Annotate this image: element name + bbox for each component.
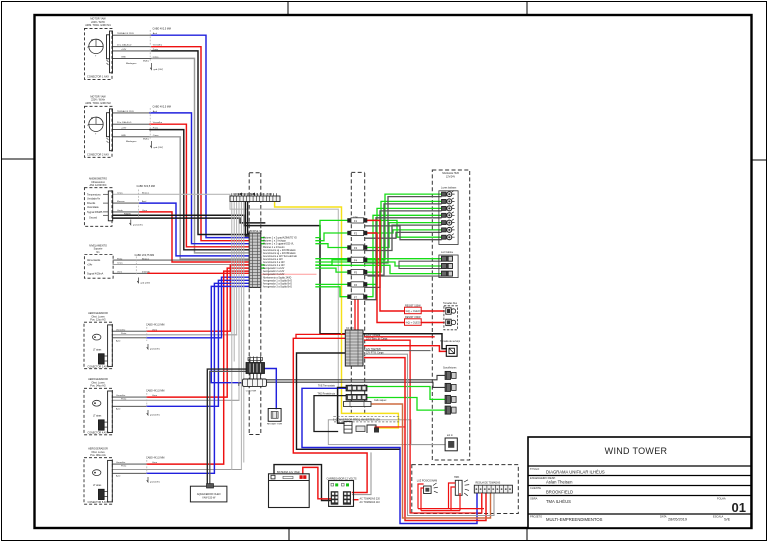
svg-text:Azul: Azul (153, 110, 158, 113)
svg-text:CABO 2X0,75 MM: CABO 2X0,75 MM (135, 254, 155, 257)
panel boundary gray box around converter (328, 420, 411, 445)
cable marker M1 (149, 30, 151, 62)
svg-text:M: M (91, 117, 93, 120)
svg-text:gnd (24V): gnd (24V) (141, 282, 151, 284)
charger output stub (red) (354, 499, 358, 501)
svg-text:CONECTOR 1 AXX: CONECTOR 1 AXX (87, 76, 109, 79)
wire M1 L1 (blue) (113, 34, 153, 36)
fuse F4 (347, 258, 351, 262)
svg-text:Anemómetro 2 a 12V: Anemómetro 2 a 12V (263, 264, 285, 267)
svg-text:Temperatura: Temperatura (87, 193, 101, 196)
svg-text:20 a 10A+B+D: 20 a 10A+B+D (117, 44, 132, 47)
oil heater junction box (190, 484, 227, 502)
svg-text:LUZ POSICIONAM: LUZ POSICIONAM (417, 479, 437, 482)
strobe lamp HRK (454, 476, 469, 496)
svg-text:Verm: Verm (117, 271, 122, 274)
svg-text:Preto: Preto (153, 48, 159, 51)
svg-text:RS485: RS485 (124, 213, 131, 215)
svg-text:Sonofletores: Sonofletores (443, 367, 457, 370)
shield drain G3 (147, 477, 148, 482)
slipring SR1 on left duct (246, 357, 265, 380)
wire AN1 shield (grey, to yellow duct run) (113, 194, 339, 419)
svg-text:AQUECEDOR OLEO: AQUECEDOR OLEO (197, 493, 221, 496)
svg-text:Verm: Verm (152, 328, 157, 331)
svg-text:Motores 1 e 2 ygpantrl/220 VL: Motores 1 e 2 ygpantrl/220 VL (263, 243, 294, 246)
blue feed TKE row2 stub (314, 396, 346, 432)
svg-text:Sygnal 4/20mA: Sygnal 4/20mA (87, 272, 104, 275)
svg-text:CABO 6X0,5 MM: CABO 6X0,5 MM (137, 185, 155, 188)
svg-text:Cinza: Cinza (117, 263, 123, 265)
svg-text:OBRA: OBRA (530, 497, 538, 501)
svg-text:220V Tomada: 220V Tomada (366, 335, 381, 337)
motor block M1 (yaw motor) (85, 18, 113, 80)
turbine block G2 (aerogenerator) (84, 378, 112, 435)
battery negative lead (black) (274, 465, 331, 501)
wire G2 L (red) (112, 396, 147, 398)
svg-text:Verm: Verm (142, 209, 147, 212)
wire N1 supply (dark) (113, 259, 249, 261)
turbine block G3 (aerogenerator) (84, 448, 112, 505)
grey charger feed (353, 453, 372, 495)
svg-text:ant m: ant m (447, 434, 453, 437)
svg-text:CONECTOR 5 AXX: CONECTOR 5 AXX (88, 501, 109, 504)
cable duct left (tower column) (249, 173, 261, 435)
fuse F1 (347, 218, 351, 222)
socket strip (regua de tomadas) (474, 482, 512, 493)
svg-text:TMA ILHÉUS: TMA ILHÉUS (546, 499, 571, 504)
svg-text:REGUA DE TOMADAS: REGUA DE TOMADAS (476, 482, 501, 485)
title block (528, 437, 751, 528)
svg-text:FOLHA: FOLHA (717, 497, 726, 501)
terminal block X2 in left duct (249, 230, 263, 287)
svg-text:+24V: +24V (121, 128, 127, 130)
svg-text:Verm: Verm (152, 394, 157, 397)
cable marker M2 (149, 108, 151, 140)
wire M1 PE (black) (113, 50, 153, 52)
svg-text:GND: GND (121, 135, 126, 137)
turbine block G1 (aerogenerator) (84, 312, 112, 369)
svg-text:Motores 1 e 2 fechpgs: Motores 1 e 2 fechpgs (263, 240, 287, 243)
svg-text:Luzes balizam: Luzes balizam (441, 187, 456, 190)
beacon lamps L1-L7 (442, 191, 455, 240)
fuse F6 (347, 282, 351, 286)
green feeds to mid devices (316, 258, 441, 260)
heater strip (orange component) (344, 400, 388, 407)
svg-text:LT atras: LT atras (93, 349, 102, 352)
svg-text:GND: GND (121, 56, 126, 58)
black ring main (terminal - base) (297, 353, 400, 449)
wire N1 return (grey) (113, 264, 249, 266)
shield drain N1 (137, 278, 138, 283)
grey returns from mid devices (399, 261, 441, 268)
battery positive lead (red) (303, 467, 331, 498)
blue slipring to junction box (265, 369, 277, 409)
svg-text:CABO 4X2,5 MM: CABO 4X2,5 MM (153, 105, 171, 108)
svg-text:Cinza: Cinza (117, 192, 123, 194)
grey tail to tower base device (411, 444, 445, 446)
svg-text:gnd (24V): gnd (24V) (154, 69, 164, 71)
svg-text:YAW 150 W: YAW 150 W (202, 497, 216, 500)
cable marker G3 (146, 460, 148, 474)
svg-text:TKE Termostato: TKE Termostato (318, 385, 336, 388)
margin tick bottom x289 (288, 528, 290, 540)
svg-text:Azul: Azul (153, 32, 158, 35)
svg-text:DATA: DATA (660, 515, 667, 519)
svg-text:Sygnal RS485: Sygnal RS485 (87, 211, 103, 214)
wire M2 PE (black) (113, 129, 151, 131)
svg-text:Tomada de serviço: Tomada de serviço (440, 340, 461, 343)
wire G3 N (grey) (112, 469, 241, 471)
svg-text:Anemómetro sg + 24V Blindado: Anemómetro sg + 24V Blindado (263, 252, 296, 255)
svg-text:Azul: Azul (116, 474, 121, 477)
wire AN1 signal- (red) (113, 211, 140, 213)
svg-text:Direcão: Direcão (87, 202, 96, 205)
fuse F5 (347, 270, 351, 274)
svg-text:Nivelamento a Supão 24VD: Nivelamento a Supão 24VD (263, 276, 292, 279)
svg-text:Aslan Theisen: Aslan Theisen (546, 480, 573, 485)
svg-text:Ground: Ground (89, 217, 98, 220)
svg-text:TITULO: TITULO (530, 467, 539, 471)
svg-text:Azul: Azul (116, 339, 121, 342)
tower base lamps dashed enclosure (412, 465, 519, 514)
tower connector X3 below slipring (239, 379, 267, 392)
shield drain G2 (147, 410, 148, 415)
svg-text:20 a 10A+B+D: 20 a 10A+B+D (117, 121, 132, 124)
svg-text:Pos. 08oo AG: Pos. 08oo AG (90, 454, 105, 457)
svg-text:gnd (24V): gnd (24V) (150, 349, 160, 351)
long dark pair tower connector to horn speakers (266, 375, 445, 379)
svg-text:ESCALA: ESCALA (713, 515, 724, 519)
svg-text:Vermelho: Vermelho (153, 44, 163, 47)
svg-text:Pos. 12oo AG: Pos. 12oo AG (90, 319, 105, 322)
cable marker G1 (146, 327, 148, 341)
svg-text:Blindagem: Blindagem (126, 63, 137, 65)
svg-text:12V RT B. Carga: 12V RT B. Carga (366, 352, 384, 355)
fuse F2 (347, 231, 351, 235)
svg-text:M: M (91, 39, 93, 42)
shield drain M2 (150, 141, 151, 148)
svg-text:REG ANT TWR: REG ANT TWR (267, 423, 283, 426)
wire N1 signal (red) (113, 272, 148, 274)
svg-text:CABO 4X1,5 MM: CABO 4X1,5 MM (146, 390, 164, 393)
svg-text:Verm: Verm (152, 461, 157, 464)
svg-text:Motores 1 e 2 grau/AZIMUTE YD: Motores 1 e 2 grau/AZIMUTE YD (263, 237, 297, 240)
svg-text:LT atras: LT atras (93, 415, 102, 418)
red drop to base sockets (wrap under lamp box) (365, 358, 486, 521)
svg-text:TENSAO R 220V: TENSAO R 220V (117, 32, 134, 35)
svg-text:4/20mA: 4/20mA (142, 271, 150, 274)
svg-text:Branco: Branco (142, 191, 150, 194)
svg-text:DIAGRAMA UNIFILAR ILHÉUS: DIAGRAMA UNIFILAR ILHÉUS (546, 470, 605, 475)
wire M2 L1 (blue) (113, 112, 151, 114)
green branches fuse column to beacon lamps (367, 194, 441, 260)
fuse F7 (347, 295, 351, 299)
shield drain G1 (147, 344, 148, 349)
wire G1 N (grey, joins down-comer) (112, 334, 236, 336)
svg-text:CABO 4X1,5 MM: CABO 4X1,5 MM (146, 323, 164, 326)
wire G1 L (red, rises to terminal) (112, 330, 147, 332)
battery charger 12V (327, 477, 381, 506)
svg-text:AQ + OLEO: AQ + OLEO (406, 309, 420, 313)
svg-text:Aerogerador 2 a 12V: Aerogerador 2 a 12V (263, 270, 285, 273)
svg-text:+24v: +24v (87, 264, 93, 267)
cable marker AN1 (138, 190, 140, 219)
svg-text:Motores 1 e 2 Neutro: Motores 1 e 2 Neutro (263, 246, 285, 249)
svg-text:CONECTOR 4 AXX: CONECTOR 4 AXX (88, 431, 109, 434)
svg-text:CABO 4X1,5 MM: CABO 4X1,5 MM (146, 457, 164, 460)
svg-text:Anemómetro 2 a 12V: Anemómetro 2 a 12V (263, 261, 285, 264)
svg-text:Umidade/Ve: Umidade/Ve (87, 198, 101, 201)
svg-text:Aerogerador 3 a Supão B+D: Aerogerador 3 a Supão B+D (263, 285, 292, 288)
wire M2 L2 (red) (113, 123, 151, 125)
margin tick top x527 (526, 2, 528, 15)
svg-text:Luz Cabine: Luz Cabine (441, 251, 454, 254)
svg-text:Vermelho: Vermelho (116, 328, 126, 331)
svg-text:Cinza: Cinza (153, 135, 159, 137)
service socket (X symbol) (440, 340, 461, 356)
wire G1 E (blue, rises to terminal) (112, 337, 147, 339)
svg-text:Cinza: Cinza (153, 56, 159, 58)
svg-text:01: 01 (732, 500, 746, 515)
svg-text:PROJETO: PROJETO (530, 515, 542, 519)
svg-text:Vermelho: Vermelho (116, 461, 126, 464)
svg-text:AN1 12/24VDC: AN1 12/24VDC (89, 184, 106, 187)
fuse F3 (347, 245, 351, 249)
TKE connector row 2 (317, 392, 367, 400)
svg-text:Azul: Azul (116, 407, 121, 410)
obstruction lamp LP1 (417, 479, 438, 493)
junction box JB1 (267, 409, 283, 426)
svg-text:CARREGADOR 12 VOLTS: CARREGADOR 12 VOLTS (327, 477, 357, 480)
red feeder fuse F2 to heater resistor 2 (367, 233, 404, 323)
wire N1 signal pass-through (light red) (261, 273, 316, 275)
blue feed inverter to TKE row1 (302, 388, 477, 523)
svg-text:Preto: Preto (153, 127, 159, 130)
interface connector X1 (nacelle/tower) (230, 193, 280, 202)
svg-text:LT atras: LT atras (93, 484, 102, 487)
wire AN1 signal+ (blue) (113, 202, 140, 204)
svg-text:Vermelho: Vermelho (153, 121, 163, 124)
svg-text:Preto: Preto (121, 332, 127, 335)
grey pair right of tower terminal (365, 350, 430, 352)
svg-text:Aerogerador 1 a 12V: Aerogerador 1 a 12V (263, 267, 285, 270)
svg-text:Velocidade: Velocidade (87, 206, 99, 209)
svg-text:Anemómetro sg + 24V Blindado: Anemómetro sg + 24V Blindado (263, 249, 296, 252)
svg-text:gnd (24V): gnd (24V) (150, 482, 160, 484)
wire G2 N (grey) (112, 399, 239, 401)
svg-text:Preto: Preto (117, 257, 123, 260)
svg-text:Aerogerador 3 a 12V: Aerogerador 3 a 12V (263, 273, 285, 276)
green feeds TKE rows to horn speakers (367, 387, 445, 400)
frequency converter assembly (334, 416, 399, 433)
sensor block B3 (anemometer / wind vane) (84, 178, 112, 227)
margin tick bottom x527 (526, 528, 528, 540)
margin tick top x288 (287, 2, 289, 15)
svg-text:CONECTOR 2 AXX: CONECTOR 2 AXX (87, 153, 109, 156)
svg-text:Aerogerador 1 a Supão B+D: Aerogerador 1 a Supão B+D (263, 279, 292, 282)
svg-text:HRK: HRK (454, 476, 460, 479)
green jumpers terminal to fuses (261, 237, 264, 239)
heater resistor R1 (red box) (405, 304, 422, 313)
red tails heater resistors to sockets (421, 310, 444, 312)
svg-text:MULTI-EMPREENDIMENTOS: MULTI-EMPREENDIMENTOS (546, 517, 603, 522)
svg-text:Verde: Verde (117, 209, 123, 212)
shield drain M1 (150, 63, 151, 70)
svg-text:Aerogerador 2 a Supão B+D: Aerogerador 2 a Supão B+D (263, 282, 292, 285)
margin tick right y160 (752, 159, 766, 161)
tower terminal block X4 on right duct (345, 327, 388, 366)
wire G2 E (blue) (112, 405, 147, 407)
svg-text:AZIM. TRAV. GIRO M1: AZIM. TRAV. GIRO M1 (85, 24, 111, 27)
grey return wires beacon lamps (365, 197, 441, 263)
grey drop to base (wrap under lamp box) (365, 354, 494, 515)
svg-text:Branco: Branco (142, 257, 150, 260)
svg-text:WIND TOWER: WIND TOWER (605, 446, 668, 456)
red bus inside lamp box (418, 483, 484, 511)
yellow feeder from interface connector (275, 202, 399, 428)
svg-text:Azul: Azul (142, 200, 147, 203)
svg-text:Anemómetro a 12V: Anemómetro a 12V (263, 258, 283, 261)
svg-text:Vermelho: Vermelho (116, 394, 126, 397)
svg-text:AZIM. TRAV. GIRO M2: AZIM. TRAV. GIRO M2 (85, 102, 111, 105)
svg-text:AC TOMADAS 110: AC TOMADAS 110 (360, 501, 381, 504)
cable marker G2 (146, 393, 148, 407)
red service lines right of tower terminal (365, 336, 434, 338)
svg-text:Cabo aquec: Cabo aquec (374, 400, 387, 402)
svg-text:+24V: +24V (121, 49, 127, 51)
grey down-comers from interface connector (231, 202, 233, 470)
svg-text:BROOKFIELD: BROOKFIELD (546, 490, 573, 495)
orange heater tail (371, 404, 491, 518)
svg-text:CONVERSOR FREQ /INVERTER 12: CONVERSOR FREQ /INVERTER 12V (336, 418, 381, 422)
heater resistor R2 (red box) (405, 316, 422, 325)
svg-text:CONECTOR 3 AXX: CONECTOR 3 AXX (88, 365, 109, 368)
margin tick left y159 (2, 158, 34, 160)
svg-text:12V TKE/HUB: 12V TKE/HUB (366, 349, 381, 351)
slipring tail pair (dark, down to oil heater box) (207, 369, 246, 486)
cabin devices D1-D3 (442, 256, 453, 276)
svg-text:CON TWR: CON TWR (246, 390, 257, 392)
right devices dashed enclosure (432, 170, 469, 460)
svg-text:gnd (24V): gnd (24V) (154, 147, 164, 149)
svg-text:Preto: Preto (121, 465, 127, 468)
red feeder fuse F1 to heater resistor 1 (367, 220, 404, 311)
svg-text:220V Banc de Carga: 220V Banc de Carga (366, 338, 388, 341)
wire list labels right of terminal X2 (263, 237, 298, 289)
svg-text:AQ + OLEO: AQ + OLEO (406, 321, 420, 325)
red ring main (terminal - charger) (293, 338, 367, 492)
svg-text:Malha: Malha (143, 60, 150, 62)
cable marker N1 (135, 257, 137, 276)
svg-text:gnd (24V): gnd (24V) (150, 415, 160, 417)
black pair to service socket (296, 334, 345, 338)
svg-text:Preto: Preto (121, 398, 127, 401)
fuse block CP5 (7 fuses) (347, 217, 367, 300)
svg-text:Blindagem: Blindagem (126, 141, 137, 143)
TKE connector row 1 (318, 385, 367, 391)
svg-text:28/05/2019: 28/05/2019 (668, 518, 687, 522)
svg-text:Marrom: Marrom (117, 200, 125, 203)
cable duct right (tower column) (351, 172, 364, 417)
svg-text:CABO 4X2,5 MM: CABO 4X2,5 MM (153, 27, 171, 30)
svg-text:12V/24V: 12V/24V (446, 175, 456, 178)
wire M1 N (grey) (113, 57, 153, 59)
motor block M2 (yaw motor) (85, 95, 113, 157)
tower base device (445, 434, 457, 451)
red 12V feed fuse column to tower terminal (354, 299, 356, 330)
wire G3 E (blue) (112, 472, 147, 474)
svg-text:gnd (24V): gnd (24V) (133, 224, 143, 226)
svg-text:Anemómetro a 12V Terra abrindo: Anemómetro a 12V Terra abrindo (263, 255, 298, 258)
svg-text:Malha: Malha (143, 138, 150, 140)
black pair from interface connector to terminal (245, 202, 249, 237)
wire G3 L (red) (112, 463, 147, 465)
svg-text:Pos. 04oo AG: Pos. 04oo AG (90, 385, 105, 388)
wire M1 L2 (red) (113, 46, 153, 48)
svg-text:TENSAO R 220V: TENSAO R 220V (117, 110, 134, 113)
wire M2 N (grey) (113, 136, 151, 138)
wire AN1 RS485 pair (black thick) (113, 215, 447, 348)
svg-text:Tomadas Res: Tomadas Res (443, 303, 458, 305)
svg-text:S/E: S/E (724, 518, 731, 522)
wire spare (blue, terminal to tower connector) (211, 286, 249, 382)
red stub at converter (375, 426, 405, 428)
battery 12V (269, 470, 310, 508)
svg-text:CLIENTE: CLIENTE (530, 486, 541, 490)
shield drain AN1 (130, 220, 131, 225)
svg-text:TKE Resistência: TKE Resistência (317, 392, 335, 395)
sensor block B4 (leveling / nivel) (84, 244, 113, 278)
svg-text:Alimentacão: Alimentacão (87, 259, 101, 262)
